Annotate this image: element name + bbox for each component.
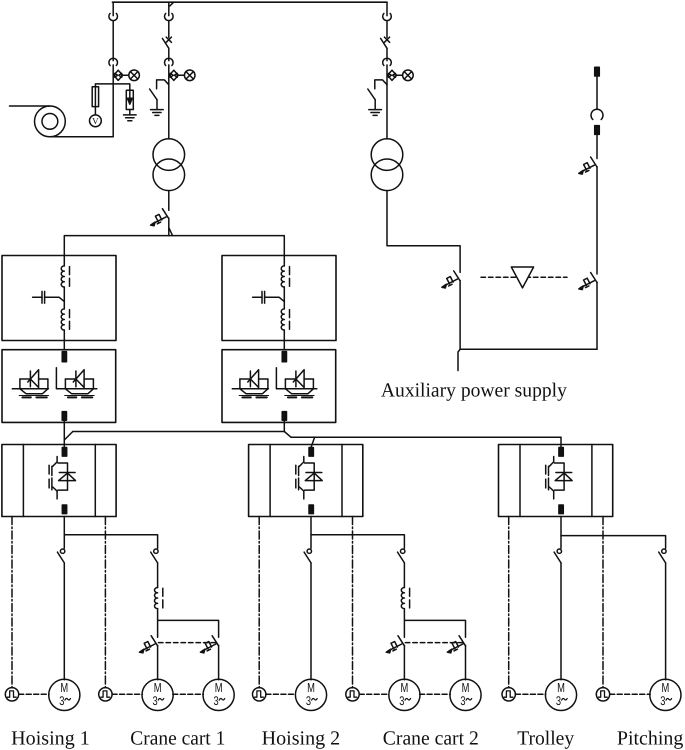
wire rectifier1 bus left	[12, 388, 48, 390]
wire T2 secondary to aux	[387, 191, 460, 273]
wire cc1 motor b	[218, 645, 220, 679]
thyristor module 1b	[65, 370, 94, 398]
brake B4	[346, 688, 359, 701]
rectifier block 1 box	[2, 350, 116, 423]
filter block 2 box	[222, 256, 336, 341]
motor M8 Pitching	[650, 679, 681, 710]
svg-text:Auxiliary power supply: Auxiliary power supply	[381, 380, 567, 402]
fuse F1	[92, 87, 98, 107]
wire filter1 axis lower	[63, 330, 65, 350]
indicator lamp feeder3	[387, 70, 413, 81]
wire cc2 to coil	[403, 563, 405, 588]
wire rectifier1 mid stub	[55, 368, 57, 389]
wire hoising1 to motor	[63, 563, 65, 680]
withdrawable breaker aux supply 1	[579, 157, 597, 174]
wire bus junction tick	[170, 2, 174, 6]
link B6 to M8	[610, 693, 651, 695]
contactor trolley	[554, 549, 561, 563]
wire rect2 output	[283, 420, 285, 431]
wire aux supply mid	[596, 134, 598, 158]
wire brake6 drop	[602, 517, 604, 688]
interlock dashed line aux	[481, 276, 567, 278]
wire crane cart 1 branch	[64, 535, 157, 549]
contactor hoising1	[57, 549, 64, 563]
wire aux outgoing stub	[458, 349, 460, 370]
wire feeder3 upper	[386, 2, 388, 15]
terminal rectifier2 bottom	[282, 412, 286, 421]
wire hoising2 to motor	[310, 563, 312, 680]
interlock dashed cc2	[405, 642, 465, 644]
wire aux supply upper	[596, 76, 598, 109]
surge arrester	[126, 90, 133, 109]
link M2 to M3	[173, 693, 204, 695]
svg-text:Hoising 2: Hoising 2	[262, 728, 341, 750]
wire fuse to voltmeter	[94, 87, 96, 115]
wire aux supply long	[596, 167, 598, 274]
voltmeter V	[90, 115, 102, 127]
thyristor module 2b	[285, 370, 314, 398]
wire filter2 axis upper	[283, 256, 285, 266]
thyristor module 1a	[19, 370, 48, 398]
wire brake5 drop	[508, 517, 510, 688]
withdrawable breaker cc1 left	[139, 636, 157, 653]
ground arrester	[124, 115, 137, 121]
junction tick dc bus left	[64, 432, 73, 441]
wire reel incoming	[10, 105, 50, 107]
wire cc2 motor a	[403, 645, 405, 679]
contactor crane cart 1	[151, 549, 158, 563]
wire hoising2 feed	[310, 517, 312, 549]
inductor L2a	[281, 266, 289, 287]
link B2 to M2	[112, 693, 142, 695]
wire brake3 drop	[258, 517, 260, 688]
inductor L1b	[61, 309, 69, 330]
brake B2	[99, 688, 112, 701]
wire brake1 drop	[11, 517, 13, 688]
motor M4 Hoising 2	[295, 679, 326, 710]
socket contact feeder2	[165, 13, 174, 20]
wire rectifier2 bus left	[232, 388, 268, 390]
contactor pitching	[659, 549, 666, 563]
wire filter2 axis mid	[283, 287, 285, 309]
inductor crane cart 2	[401, 588, 409, 609]
wire VT crossbar	[95, 84, 129, 90]
motor M2 Crane cart 1a	[142, 679, 173, 710]
wire feeder1 mid	[112, 21, 114, 61]
wire aux bottom horizontal	[460, 348, 597, 350]
plug contact aux	[591, 109, 603, 119]
wire T1 to converter bus	[168, 218, 170, 235]
contactor crane cart 2	[398, 549, 405, 563]
link B4 to M5	[359, 693, 389, 695]
motor M7 Trolley	[545, 679, 576, 710]
terminal rectifier1 bottom	[62, 412, 66, 421]
wire rectifier2 mid stub	[275, 368, 277, 389]
wire T1 secondary	[168, 191, 170, 211]
wire pitching branch	[561, 536, 666, 549]
rectifier block 2 box	[222, 350, 336, 423]
wire rectifier1 bus right	[57, 388, 97, 390]
inductor L1a	[61, 266, 69, 287]
wire rect1 to inverter1	[63, 420, 65, 447]
wire feeder3 to breaker	[386, 21, 388, 38]
wire filter1 axis upper	[63, 256, 65, 266]
withdrawable breaker aux supply 2	[579, 273, 597, 290]
wire trolley to motor	[560, 563, 562, 680]
wire dc bus to inverter3	[560, 437, 562, 447]
wire top bus	[113, 1, 388, 3]
transformer T1	[153, 139, 185, 191]
junction tick dc bus inverter2	[311, 437, 315, 447]
wire converter bus	[64, 236, 284, 256]
withdrawable breaker aux left	[442, 271, 460, 288]
transformer T2	[371, 139, 403, 191]
svg-text:V: V	[92, 116, 99, 126]
plug contact feeder1	[109, 58, 118, 65]
wire feeder1 lower	[112, 65, 114, 137]
wire feeder2 lower	[168, 65, 170, 139]
wire feeder3 lower	[386, 65, 388, 139]
withdrawable breaker cc1 right	[200, 636, 218, 653]
wire feeder3 breaker to plug	[386, 48, 388, 60]
wire aux left down	[459, 281, 461, 350]
brake B1	[5, 688, 18, 701]
withdrawable breaker cc2 left	[386, 636, 404, 653]
svg-text:Crane cart 1: Crane cart 1	[130, 728, 225, 750]
withdrawable breaker T1 output	[151, 209, 169, 226]
motor M1 Hoising 1	[49, 679, 80, 710]
filter block 1 box	[2, 256, 116, 341]
thyristor module 2a	[239, 370, 268, 398]
terminal aux lower	[595, 126, 600, 135]
terminal rectifier2 top	[282, 352, 286, 362]
inductor L2b	[281, 309, 289, 330]
wire cc2 motor b	[465, 645, 467, 679]
capacitor C1	[41, 291, 43, 303]
wire brake2 drop	[104, 517, 106, 688]
junction tick converter bus	[169, 228, 173, 236]
indicator lamp feeder2	[169, 70, 195, 81]
terminal rectifier1 top	[62, 352, 66, 362]
brake B3	[253, 688, 266, 701]
brake B5	[502, 688, 515, 701]
interlock dashed cc1	[159, 642, 219, 644]
motor M6 Crane cart 2b	[450, 679, 481, 710]
withdrawable breaker cc2 right	[447, 636, 465, 653]
plug contact feeder3	[383, 58, 392, 65]
motor M5 Crane cart 2a	[389, 679, 420, 710]
inverter block 2	[249, 445, 363, 517]
indicator lamp feeder1	[114, 70, 140, 81]
svg-text:Hoising 1: Hoising 1	[11, 728, 90, 750]
wire cc1 motor a	[157, 645, 159, 679]
inductor crane cart 1	[155, 588, 163, 609]
wire hoising1 feed	[63, 517, 65, 549]
wire rectifier2 bus right	[277, 388, 317, 390]
wire cc2 split	[404, 609, 465, 638]
contactor hoising2	[304, 549, 311, 563]
wire dc bus segment A	[73, 431, 284, 433]
circuit breaker QF1	[166, 37, 171, 42]
wire cc1 split	[158, 609, 219, 638]
motor M3 Crane cart 1b	[203, 679, 234, 710]
wire arrester to ground	[129, 110, 131, 115]
wire feeder2 breaker to plug	[168, 48, 170, 60]
wire feeder2 upper	[168, 2, 170, 15]
wire pitching to motor	[665, 563, 667, 680]
level indicator triangle	[511, 267, 533, 288]
wire filter1 axis mid	[63, 287, 65, 309]
wire brake4 drop	[352, 517, 354, 688]
svg-text:Trolley: Trolley	[517, 728, 574, 750]
capacitor C2	[261, 291, 263, 303]
link B1 to M1	[19, 693, 49, 695]
socket contact feeder1	[109, 13, 118, 20]
terminal aux top	[595, 67, 600, 76]
wire aux right down	[596, 282, 598, 349]
socket contact feeder3	[383, 13, 392, 20]
circuit breaker QF2	[384, 37, 389, 42]
cable reel	[35, 106, 66, 137]
inverter block 3	[499, 445, 613, 517]
link M5 to M6	[420, 693, 451, 695]
wire crane cart 2 branch	[311, 535, 404, 549]
svg-text:Pitching: Pitching	[617, 728, 683, 750]
inverter block 1	[2, 445, 116, 517]
wire reel outgoing	[50, 136, 113, 138]
svg-text:Crane cart 2: Crane cart 2	[383, 728, 479, 750]
link B5 to M7	[515, 693, 545, 695]
plug contact feeder2	[165, 58, 174, 65]
wire feeder2 to breaker	[168, 21, 170, 38]
brake B6	[596, 688, 609, 701]
wire trolley feed	[560, 517, 562, 549]
earthing switch feeder3	[368, 80, 387, 116]
wire feeder1 upper	[112, 2, 114, 15]
wire dc bus jog	[284, 432, 291, 438]
link B3 to M4	[266, 693, 296, 695]
wire filter2 axis lower	[283, 330, 285, 350]
wire dc bus segment B	[291, 436, 561, 438]
wire cc1 to coil	[157, 563, 159, 588]
earthing switch feeder2	[150, 80, 169, 116]
